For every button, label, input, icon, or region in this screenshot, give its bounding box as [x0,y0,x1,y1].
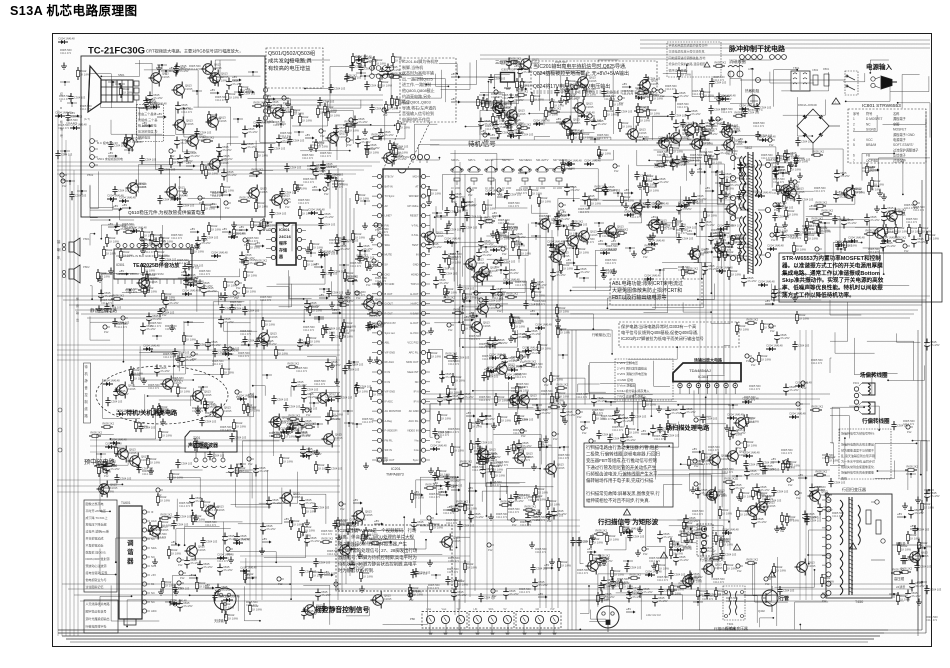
svg-text:S13A 机芯电路原理图: S13A 机芯电路原理图 [10,3,138,18]
